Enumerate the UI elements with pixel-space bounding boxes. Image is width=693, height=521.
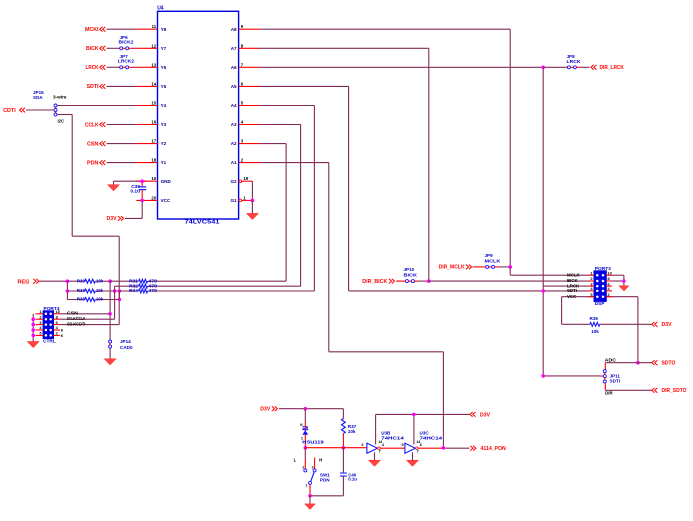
jumper JP8 LRCK bbox=[545, 54, 590, 69]
svg-text:K: K bbox=[61, 328, 64, 332]
wire I2C route to SDA/CDTI line bbox=[57, 115, 119, 325]
wire A3 to R32 row bbox=[260, 125, 301, 287]
net DIR_LRCK label bbox=[591, 65, 624, 71]
wire SDTI column to JP11 bbox=[541, 374, 600, 378]
net BICK wire to PORT3 bbox=[429, 280, 589, 282]
connector PORT4 CTRL header bbox=[43, 306, 60, 345]
PORT3 right pins to ground bbox=[606, 270, 625, 297]
IC U4 pin stubs bbox=[136, 29, 259, 202]
wire A8 to MCLK column bbox=[260, 29, 511, 267]
svg-text:10k: 10k bbox=[96, 288, 103, 294]
wire CSN column to PORT4 bbox=[108, 281, 112, 340]
wire A2 to R31 row bbox=[260, 144, 287, 282]
net LRCK wire bbox=[86, 65, 137, 71]
svg-text:LRCK: LRCK bbox=[86, 65, 99, 71]
svg-text:13: 13 bbox=[151, 62, 156, 67]
net SDTO row bbox=[605, 357, 676, 366]
resistor R36 10k bbox=[562, 297, 652, 334]
svg-text:10: 10 bbox=[56, 309, 60, 314]
IC U4 74LVC541 body bbox=[151, 6, 248, 226]
svg-text:SDTI: SDTI bbox=[567, 288, 577, 293]
svg-text:7: 7 bbox=[379, 450, 381, 454]
jumper JP11 SDTI bbox=[601, 363, 621, 384]
svg-text:10: 10 bbox=[608, 270, 612, 275]
svg-text:SDTO: SDTO bbox=[662, 361, 676, 367]
svg-text:SDA/CDTI: SDA/CDTI bbox=[67, 322, 86, 327]
net D3V label right bbox=[652, 322, 672, 328]
jumper JP15 SDA 3-wire/I2C bbox=[33, 90, 67, 123]
svg-text:H: H bbox=[319, 458, 322, 463]
net D3V label bottom-left bbox=[260, 406, 343, 412]
capacitor C40 0.1u bbox=[340, 448, 357, 496]
resistor R34 470 bbox=[119, 288, 314, 293]
svg-text:JP14: JP14 bbox=[120, 339, 131, 344]
svg-text:CSN: CSN bbox=[87, 141, 99, 147]
svg-text:8: 8 bbox=[56, 314, 59, 319]
resistor R37 10k bbox=[342, 409, 357, 450]
svg-text:2: 2 bbox=[39, 314, 42, 319]
svg-text:PDN: PDN bbox=[87, 160, 99, 166]
svg-text:SDTI: SDTI bbox=[610, 378, 620, 383]
svg-text:A8: A8 bbox=[231, 27, 237, 32]
svg-text:MCLK: MCLK bbox=[567, 272, 581, 277]
svg-text:10k: 10k bbox=[591, 329, 599, 334]
svg-text:7: 7 bbox=[241, 62, 244, 67]
ground at IC GND pin bbox=[108, 181, 147, 191]
svg-text:A2: A2 bbox=[231, 141, 237, 146]
wire A4 to R34 row bbox=[260, 106, 315, 292]
resistor R30 10k bbox=[67, 278, 111, 284]
svg-text:15: 15 bbox=[151, 101, 156, 106]
net REG label bbox=[18, 279, 68, 286]
svg-text:SDTI: SDTI bbox=[87, 84, 100, 90]
inverter U3C 74HC14 bbox=[405, 431, 443, 454]
net VCC row through PORT3 bbox=[562, 296, 638, 298]
svg-text:3-wire: 3-wire bbox=[53, 95, 67, 100]
svg-text:4114_PON: 4114_PON bbox=[481, 446, 507, 452]
svg-text:A3: A3 bbox=[231, 122, 237, 127]
svg-text:A4: A4 bbox=[231, 103, 237, 108]
jumper JP14 CAD0 bbox=[109, 339, 133, 350]
svg-text:74LVC541: 74LVC541 bbox=[185, 219, 220, 225]
svg-text:2: 2 bbox=[302, 465, 304, 469]
svg-text:CTRL: CTRL bbox=[43, 339, 56, 345]
svg-text:U4: U4 bbox=[157, 6, 164, 12]
svg-text:18: 18 bbox=[151, 158, 156, 163]
svg-text:7: 7 bbox=[417, 450, 419, 454]
svg-text:PDN: PDN bbox=[320, 477, 330, 482]
net D3V rail for inverters bbox=[376, 412, 491, 445]
svg-text:R35: R35 bbox=[77, 297, 85, 303]
wire REG bus bbox=[66, 279, 70, 299]
svg-text:HSU119: HSU119 bbox=[302, 440, 324, 445]
jumper JP7 LRCK2 bbox=[118, 54, 134, 69]
svg-text:20: 20 bbox=[151, 195, 156, 200]
svg-text:D3V: D3V bbox=[662, 322, 673, 328]
svg-text:VCC: VCC bbox=[567, 294, 577, 299]
svg-text:MCKI: MCKI bbox=[85, 27, 99, 33]
svg-text:L: L bbox=[294, 458, 297, 463]
wire SDA column junctions bbox=[118, 291, 120, 300]
wire U3B to U3C bbox=[380, 443, 405, 448]
net SDA/CDTI row to PORT4 bbox=[60, 322, 119, 327]
net LRCK wire to PORT3 bbox=[543, 285, 588, 287]
ground below JP14 bbox=[104, 348, 116, 365]
svg-text:R30: R30 bbox=[77, 278, 85, 284]
svg-text:2: 2 bbox=[241, 158, 244, 163]
net D3V feed to VCC pin bbox=[107, 200, 143, 222]
wire A6 LRCK net bbox=[260, 66, 545, 376]
svg-text:LRCK: LRCK bbox=[567, 59, 582, 64]
svg-text:8: 8 bbox=[241, 43, 244, 48]
svg-text:CSN: CSN bbox=[67, 311, 78, 316]
net SDTI wire left bbox=[87, 84, 137, 90]
svg-text:Y7: Y7 bbox=[161, 46, 167, 51]
svg-text:1: 1 bbox=[590, 270, 593, 275]
inverter U3B 74HC14 bbox=[367, 431, 404, 454]
net MCLK wire to PORT3 bbox=[510, 267, 588, 275]
net DIR_SDTO row bbox=[605, 383, 686, 396]
svg-text:5: 5 bbox=[241, 101, 244, 106]
svg-text:1: 1 bbox=[243, 195, 246, 200]
svg-text:10k: 10k bbox=[96, 297, 103, 303]
svg-text:5: 5 bbox=[590, 292, 593, 297]
svg-text:D3V: D3V bbox=[107, 216, 118, 222]
svg-text:12: 12 bbox=[151, 43, 156, 48]
svg-text:4: 4 bbox=[382, 443, 385, 447]
svg-text:D3V: D3V bbox=[260, 407, 271, 413]
net SCLK/CCLK row to PORT4 bbox=[60, 316, 115, 321]
svg-text:A6: A6 bbox=[231, 65, 237, 70]
svg-text:11: 11 bbox=[152, 24, 157, 29]
svg-text:DIR_MCLK: DIR_MCLK bbox=[439, 265, 465, 271]
svg-text:Y1: Y1 bbox=[161, 160, 167, 165]
net CSN wire left bbox=[87, 141, 136, 147]
svg-text:SDA: SDA bbox=[33, 95, 43, 100]
svg-text:A7: A7 bbox=[231, 46, 237, 51]
svg-text:BICK: BICK bbox=[86, 46, 99, 52]
svg-text:6: 6 bbox=[56, 320, 59, 325]
svg-text:3: 3 bbox=[39, 320, 42, 325]
svg-text:Y2: Y2 bbox=[161, 141, 167, 146]
svg-text:MCLK: MCLK bbox=[485, 258, 502, 263]
PORT3 left pin stubs and labels bbox=[567, 270, 594, 299]
ground at U3B pin7 bbox=[369, 452, 381, 466]
svg-text:I2C: I2C bbox=[58, 118, 65, 123]
svg-text:2: 2 bbox=[608, 292, 611, 297]
jumper JP10 BICK bbox=[396, 267, 431, 283]
svg-text:Y6: Y6 bbox=[161, 65, 167, 70]
svg-text:VCC: VCC bbox=[161, 198, 171, 203]
svg-text:DIR_LRCK: DIR_LRCK bbox=[600, 65, 625, 71]
svg-text:10: 10 bbox=[151, 176, 156, 181]
svg-text:Y8: Y8 bbox=[161, 27, 167, 32]
wire JP15 to Y4 pin15 bbox=[57, 105, 136, 107]
svg-text:3: 3 bbox=[312, 465, 314, 469]
net 4114_PON output bbox=[418, 446, 506, 452]
resistor R32 470 bbox=[115, 283, 301, 319]
svg-text:10k: 10k bbox=[96, 278, 103, 284]
svg-text:5: 5 bbox=[401, 443, 403, 447]
svg-text:R33: R33 bbox=[77, 288, 85, 294]
svg-text:Y5: Y5 bbox=[161, 84, 167, 89]
net DIR_MCLK label bbox=[439, 265, 472, 271]
resistor R31 470 bbox=[110, 278, 286, 283]
svg-text:Y3: Y3 bbox=[161, 122, 167, 127]
net CDTI wire bbox=[3, 108, 54, 114]
svg-text:14: 14 bbox=[151, 81, 156, 86]
PORT4 right pins bbox=[54, 309, 64, 338]
svg-text:3: 3 bbox=[241, 139, 244, 144]
net CCLK wire bbox=[85, 122, 136, 128]
svg-text:DSP: DSP bbox=[595, 301, 606, 307]
wire SW1 common to ground and C40 bbox=[308, 484, 343, 504]
jumper JP9 MCLK bbox=[473, 253, 513, 269]
net MCKI wire bbox=[85, 27, 136, 33]
svg-text:6: 6 bbox=[420, 443, 422, 447]
svg-text:Y4: Y4 bbox=[161, 103, 167, 108]
svg-text:R34: R34 bbox=[129, 288, 138, 293]
svg-text:REG: REG bbox=[18, 279, 30, 285]
svg-text:CAD0: CAD0 bbox=[120, 345, 133, 350]
svg-text:10k: 10k bbox=[348, 429, 356, 434]
svg-text:A5: A5 bbox=[231, 84, 237, 89]
wire A5 to SDTI row bbox=[260, 86, 589, 292]
ground at U3C pin7 bbox=[407, 452, 419, 466]
svg-text:CDTI: CDTI bbox=[3, 108, 16, 114]
svg-text:CCLK: CCLK bbox=[85, 122, 99, 128]
ground below SW1 bbox=[305, 504, 316, 510]
net PDN wire to U3B bbox=[305, 443, 367, 448]
resistor R33 10k bbox=[67, 288, 121, 294]
svg-text:4: 4 bbox=[241, 120, 244, 125]
PORT4 left pins to ground bbox=[27, 309, 43, 348]
net BICK wire bbox=[86, 46, 136, 52]
svg-text:9: 9 bbox=[241, 24, 244, 29]
svg-text:DIR_SDTO: DIR_SDTO bbox=[662, 388, 687, 394]
svg-text:BICK2: BICK2 bbox=[119, 40, 134, 45]
svg-text:1: 1 bbox=[306, 484, 308, 488]
svg-text:BICK: BICK bbox=[404, 272, 418, 277]
jumper JP6 BICK2 bbox=[119, 35, 134, 50]
svg-text:470: 470 bbox=[148, 288, 157, 293]
svg-text:LRCK2: LRCK2 bbox=[118, 59, 134, 64]
svg-text:74HC14: 74HC14 bbox=[381, 435, 404, 440]
svg-text:SCLK/CCLK: SCLK/CCLK bbox=[67, 316, 86, 321]
svg-text:0.1u: 0.1u bbox=[130, 189, 140, 195]
svg-text:19: 19 bbox=[243, 176, 248, 181]
svg-text:A1: A1 bbox=[231, 160, 237, 165]
svg-text:G2: G2 bbox=[230, 179, 237, 184]
ground at G1/G2 pins bbox=[246, 181, 258, 219]
connector PORT3 DSP header bbox=[594, 266, 611, 307]
svg-text:GND: GND bbox=[161, 179, 172, 184]
svg-text:D3V: D3V bbox=[480, 412, 491, 418]
wire VCC column to SDTO row bbox=[636, 297, 640, 365]
svg-text:3: 3 bbox=[361, 443, 363, 447]
svg-text:17: 17 bbox=[151, 139, 156, 144]
resistor R35 10k bbox=[67, 297, 121, 303]
svg-text:K: K bbox=[61, 334, 64, 338]
net CSN row to PORT4 bbox=[60, 311, 110, 316]
wire A1 to PDN output bbox=[260, 163, 444, 448]
svg-text:16: 16 bbox=[151, 120, 156, 125]
wire A7 to BICK column bbox=[260, 48, 429, 281]
svg-text:ADC: ADC bbox=[605, 357, 617, 362]
svg-text:G1: G1 bbox=[230, 198, 237, 203]
svg-text:DIR_BICK: DIR_BICK bbox=[362, 279, 387, 285]
net PDN wire left bbox=[87, 160, 136, 166]
svg-text:R36: R36 bbox=[590, 316, 599, 321]
svg-text:6: 6 bbox=[241, 81, 244, 86]
capacitor C39 0.1u bbox=[130, 179, 146, 202]
diode D9 HSU119 bbox=[300, 409, 324, 450]
net DIR_BICK label bbox=[362, 279, 394, 285]
svg-text:74HC14: 74HC14 bbox=[420, 435, 443, 440]
svg-text:DIR: DIR bbox=[605, 391, 613, 396]
switch SW1 PDN bbox=[294, 448, 331, 488]
ground at PORT3 pin10 bbox=[619, 286, 629, 291]
svg-text:0.1u: 0.1u bbox=[348, 476, 357, 481]
